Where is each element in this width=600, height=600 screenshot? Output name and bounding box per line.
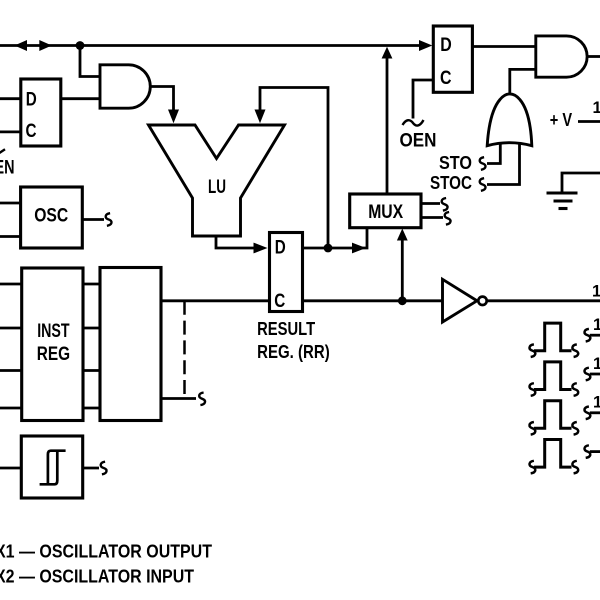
wire clock to MUX (401, 240, 404, 301)
wire OEN to U3 C (413, 80, 433, 119)
svg-text:C: C (274, 291, 285, 312)
oscillator OSC (21, 187, 83, 248)
and-gate G2 (536, 36, 587, 77)
wire MUX right output 2 (421, 216, 443, 219)
decoder U5 (100, 268, 161, 421)
wire RR Q to MUX input (303, 228, 368, 248)
register RR result register (270, 233, 303, 312)
wire INST input 4 (0, 407, 22, 410)
svg-text:X2 — OSCILLATOR INPUT: X2 — OSCILLATOR INPUT (0, 567, 194, 587)
and-gate G1 (100, 65, 150, 108)
register U1 input latch (21, 79, 61, 146)
waveform pin row 2 (534, 362, 572, 390)
wire U5 lower output (161, 397, 196, 400)
svg-text:OEN: OEN (400, 131, 437, 152)
svg-text:D: D (275, 238, 286, 259)
wire bus to AND G1 (80, 46, 100, 77)
wire OSC input 1 (0, 202, 21, 205)
svg-text:REG. (RR): REG. (RR) (257, 342, 330, 362)
svg-text:STO: STO (439, 153, 472, 173)
wire G2 output pin (587, 55, 600, 58)
wire MUX right output 1 (421, 202, 440, 205)
svg-text:C: C (26, 121, 37, 142)
svg-text:IEN: IEN (0, 158, 15, 179)
wire INST input 1 (0, 283, 22, 286)
wire D input U1 (0, 97, 21, 100)
wire stub 4 (83, 407, 100, 410)
wire OR G3 to G2 (510, 69, 536, 95)
or-gate G3 (487, 94, 532, 146)
svg-text:D: D (440, 35, 452, 56)
mux MUX (350, 194, 421, 228)
svg-text:LU: LU (208, 177, 226, 198)
ground (562, 173, 600, 193)
svg-text:1: 1 (593, 99, 600, 117)
wire U6 input (0, 467, 21, 470)
wire INST input 3 (0, 369, 22, 372)
wire clock line (161, 299, 443, 302)
svg-text:OSC: OSC (34, 206, 68, 227)
wire stub 1 (83, 283, 100, 286)
waveform pin row 1 (534, 323, 572, 351)
pin IEN break (0, 149, 5, 154)
wire C input U1 (0, 130, 21, 133)
wire bus arrow left (15, 40, 28, 51)
wire STOC input (480, 178, 486, 191)
svg-text:1: 1 (592, 283, 600, 301)
svg-text:X1 — OSCILLATOR OUTPUT: X1 — OSCILLATOR OUTPUT (0, 542, 212, 562)
wire OSC output (82, 218, 104, 221)
pin +V (578, 120, 600, 123)
wire U1 to G1 (61, 97, 100, 100)
wire bus arrow right (39, 40, 52, 51)
wire stub 2 (83, 327, 100, 330)
wire STO input (480, 157, 486, 170)
logic unit LU (149, 125, 285, 236)
waveform pin row 3 (534, 401, 572, 429)
svg-text:C: C (440, 68, 452, 89)
wire G1 to LU input 1 (150, 87, 173, 111)
wire OSC input 2 (0, 235, 21, 238)
svg-text:MUX: MUX (368, 202, 403, 223)
svg-text:RESULT: RESULT (257, 319, 315, 339)
wire LU output to RR D (216, 236, 254, 248)
register INST REG (22, 268, 83, 421)
svg-text:+ V: + V (550, 110, 572, 130)
svg-text:1: 1 (593, 394, 600, 412)
node clock junction (398, 296, 407, 305)
wire data bus (0, 44, 421, 47)
svg-text:1: 1 (593, 355, 600, 373)
wire INST input 2 (0, 327, 22, 330)
wire MUX to bus (386, 57, 389, 194)
waveform pin row 4 (534, 440, 572, 468)
svg-text:1: 1 (593, 316, 600, 334)
svg-text:INST: INST (37, 321, 70, 342)
wire RR feedback to LU input 2 (260, 88, 328, 249)
node RR Q junction (324, 244, 333, 253)
buffer G4 (443, 279, 478, 322)
svg-text:REG: REG (37, 344, 70, 365)
wire U3 to G2 (472, 45, 535, 48)
wire stub 3 (83, 369, 100, 372)
svg-text:D: D (26, 90, 37, 111)
wire U6 output (83, 467, 99, 470)
wire bus arrowhead into U3 (419, 40, 432, 51)
schmitt trigger U6 (21, 436, 82, 498)
svg-text:STOC: STOC (430, 173, 472, 193)
node bus junction (76, 41, 85, 50)
wire buffer output pin (487, 299, 600, 302)
wire dashed bus (183, 301, 186, 399)
register U3 output latch (433, 26, 472, 92)
